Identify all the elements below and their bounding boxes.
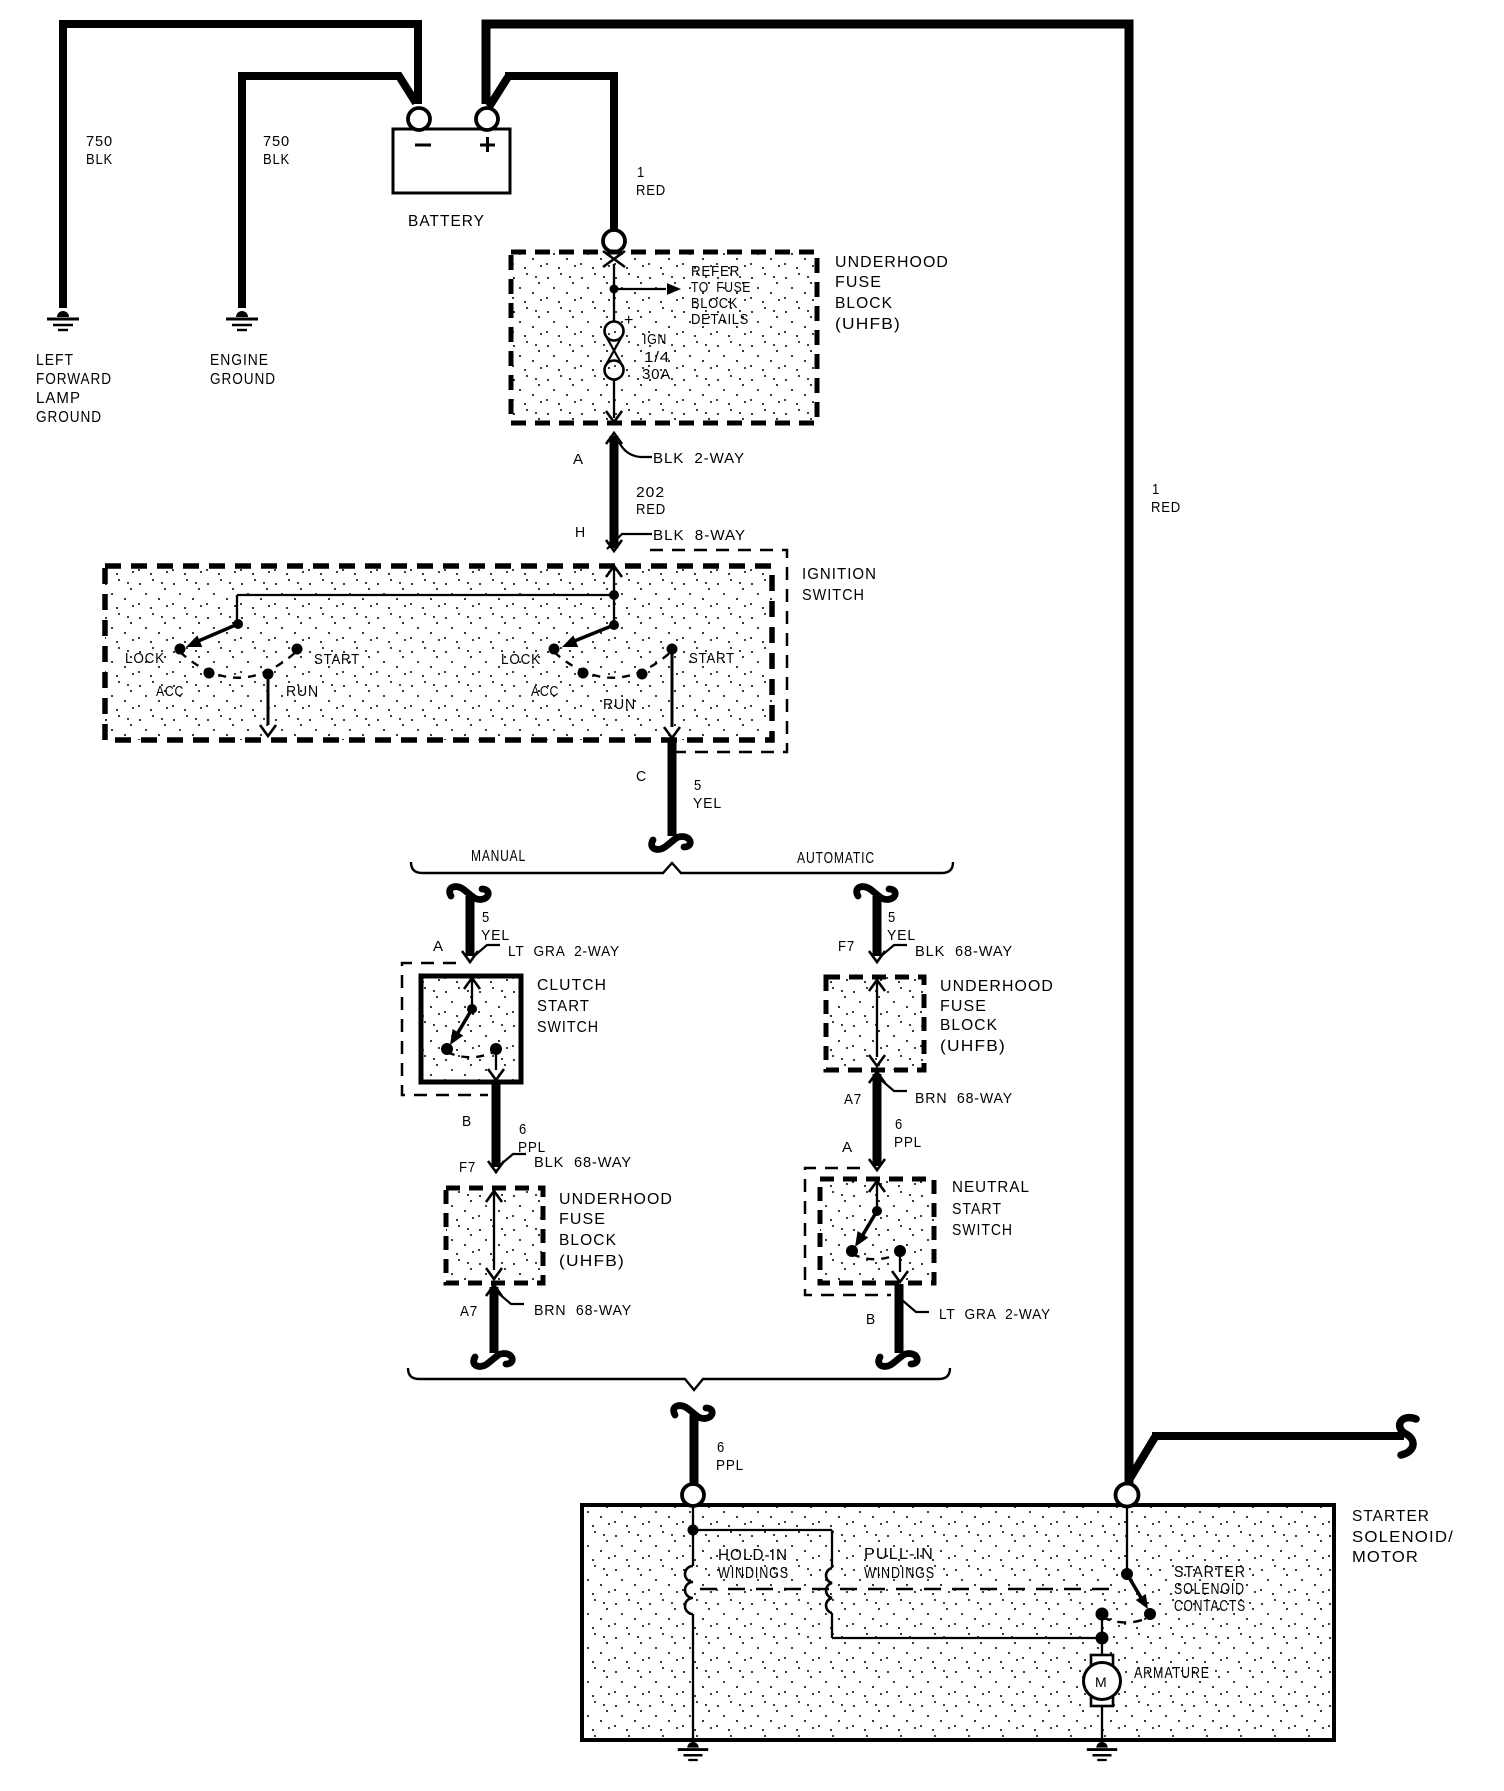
svg-text:5: 5 — [888, 909, 896, 926]
svg-text:NEUTRAL: NEUTRAL — [952, 1179, 1030, 1196]
svg-text:BRN 68-WAY: BRN 68-WAY — [915, 1090, 1013, 1107]
svg-text:GROUND: GROUND — [210, 371, 276, 388]
svg-text:MOTOR: MOTOR — [1352, 1549, 1419, 1566]
svg-text:SWITCH: SWITCH — [952, 1222, 1013, 1239]
left wafer output wire — [267, 674, 270, 725]
clutch start switch — [421, 976, 521, 1082]
svg-text:UNDERHOOD: UNDERHOOD — [940, 978, 1054, 995]
svg-text:FUSE: FUSE — [559, 1211, 606, 1228]
svg-text:BLK: BLK — [86, 151, 113, 168]
svg-text:A: A — [842, 1139, 853, 1156]
svg-text:RED: RED — [636, 182, 666, 199]
svg-text:SWITCH: SWITCH — [802, 587, 865, 604]
fuse IGN 1/4 30A — [613, 289, 615, 322]
ground: solenoid hold-in — [687, 1742, 698, 1748]
starter solenoid contacts — [1126, 1506, 1128, 1572]
svg-text:YEL: YEL — [887, 927, 916, 944]
svg-text:FUSE: FUSE — [835, 274, 882, 291]
svg-text:BLOCK: BLOCK — [940, 1017, 998, 1034]
contact RUN (right) — [637, 669, 648, 680]
svg-text:SOLENOID/: SOLENOID/ — [1352, 1529, 1454, 1546]
svg-text:F7: F7 — [459, 1159, 476, 1176]
svg-text:5: 5 — [694, 777, 702, 794]
contact RUN (left) — [263, 669, 274, 680]
contact to armature junction — [1101, 1614, 1103, 1638]
svg-text:ACC: ACC — [531, 683, 559, 700]
clutch switch contact (lower left) — [441, 1043, 453, 1055]
svg-text:(UHFB): (UHFB) — [559, 1253, 625, 1270]
svg-text:MANUAL: MANUAL — [471, 848, 526, 865]
terminal X at UHFB entry — [603, 251, 625, 267]
contact LOCK (right) — [549, 644, 560, 655]
svg-text:BRN 68-WAY: BRN 68-WAY — [534, 1302, 632, 1319]
svg-text:LT GRA 2-WAY: LT GRA 2-WAY — [508, 943, 620, 960]
svg-text:A: A — [433, 938, 444, 955]
contact START (right) — [667, 644, 678, 655]
brace: manual/automatic join — [408, 1368, 950, 1390]
neutral start switch — [820, 1179, 934, 1283]
svg-text:30A: 30A — [642, 367, 671, 383]
svg-text:FUSE: FUSE — [940, 998, 987, 1015]
svg-text:750: 750 — [263, 133, 290, 150]
svg-text:+: + — [624, 312, 634, 329]
wire (manual) to splice — [490, 1287, 499, 1353]
neutral switch output contact — [894, 1245, 906, 1257]
svg-text:FORWARD: FORWARD — [36, 371, 112, 388]
clutch switch movable contact — [467, 1004, 477, 1014]
connector ring (6 PPL into solenoid) — [682, 1484, 704, 1506]
svg-text:START: START — [952, 1201, 1002, 1218]
svg-text:RUN: RUN — [286, 683, 319, 700]
svg-text:6: 6 — [717, 1439, 725, 1456]
svg-text:F7: F7 — [838, 938, 855, 955]
svg-text:202: 202 — [636, 484, 665, 501]
underhood fuse block UHFB (manual) — [446, 1188, 543, 1283]
svg-text:RED: RED — [636, 501, 666, 518]
svg-text:C: C — [636, 768, 647, 785]
continuation squiggle (automatic end) — [879, 1354, 918, 1367]
junction node — [609, 590, 619, 600]
svg-text:1: 1 — [637, 164, 645, 181]
wire 5 YEL automatic branch — [873, 896, 882, 956]
contact ACC (left) — [204, 668, 215, 679]
svg-text:A7: A7 — [460, 1303, 478, 1320]
neutral switch movable contact — [872, 1206, 882, 1216]
right wafer feed — [613, 595, 615, 624]
svg-text:A7: A7 — [844, 1091, 862, 1108]
svg-text:750: 750 — [86, 133, 113, 150]
contact LOCK (left) — [175, 644, 186, 655]
svg-text:BLK: BLK — [263, 151, 290, 168]
svg-text:6: 6 — [895, 1116, 903, 1133]
svg-text:BLK 68-WAY: BLK 68-WAY — [534, 1154, 632, 1171]
svg-text:DETAILS: DETAILS — [691, 312, 749, 328]
continuation squiggle (automatic 5 YEL) — [857, 887, 896, 900]
wire 5 YEL from ignition switch — [668, 742, 677, 836]
svg-text:B: B — [462, 1113, 472, 1130]
svg-text:AUTOMATIC: AUTOMATIC — [797, 850, 875, 867]
node: fuse feed junction — [613, 264, 615, 288]
svg-text:RUN: RUN — [603, 696, 636, 713]
pull-in winding return — [831, 1613, 833, 1638]
underhood fuse block UHFB (automatic) — [826, 977, 924, 1070]
svg-text:TO FUSE: TO FUSE — [691, 280, 751, 296]
svg-text:M: M — [1095, 1674, 1107, 1690]
svg-text:YEL: YEL — [481, 927, 510, 944]
wire 6 PPL to starter solenoid — [690, 1415, 699, 1483]
ignition switch connector outline (8-way) — [650, 550, 787, 752]
armature return to ground — [1101, 1706, 1103, 1739]
wire to pull-in winding — [693, 1529, 832, 1531]
UHFB automatic internal path — [869, 980, 885, 991]
hold-in winding return to ground — [692, 1614, 694, 1739]
svg-text:IGNITION: IGNITION — [802, 566, 877, 583]
clutch switch detent arc — [447, 1051, 496, 1057]
svg-text:LEFT: LEFT — [36, 352, 74, 369]
svg-text:ACC: ACC — [156, 683, 184, 700]
ground: engine — [236, 311, 248, 317]
svg-text:SWITCH: SWITCH — [537, 1019, 599, 1036]
svg-text:H: H — [575, 524, 586, 541]
clutch switch feed arrow — [464, 978, 480, 989]
ignition switch — [105, 566, 772, 740]
svg-text:LT GRA 2-WAY: LT GRA 2-WAY — [939, 1306, 1051, 1323]
battery negative terminal — [408, 108, 430, 130]
svg-text:LAMP: LAMP — [36, 390, 81, 407]
continuation squiggle (manual 5 YEL) — [450, 887, 489, 900]
starter solenoid/motor box — [582, 1505, 1334, 1740]
svg-text:UNDERHOOD: UNDERHOOD — [835, 254, 949, 271]
svg-text:BLK 68-WAY: BLK 68-WAY — [915, 943, 1013, 960]
right wafer wiper arrow to LOCK — [572, 625, 614, 642]
junction: windings split — [688, 1525, 699, 1536]
svg-text:1/4: 1/4 — [644, 350, 670, 366]
wire 202 RED — [610, 436, 619, 548]
svg-text:IGN: IGN — [643, 332, 667, 348]
svg-text:(UHFB): (UHFB) — [940, 1038, 1006, 1055]
svg-text:BATTERY: BATTERY — [408, 213, 485, 230]
wire: solenoid branch to right (continuation) — [1129, 1437, 1155, 1480]
pull-in winding L2 — [826, 1568, 832, 1613]
underhood fuse block UHFB (top) — [511, 252, 817, 423]
wire 1 RED battery positive to underhood fuse block — [489, 77, 508, 107]
contacts detent arc — [1102, 1617, 1150, 1623]
svg-text:BLOCK: BLOCK — [691, 296, 738, 312]
ground: left forward lamp — [57, 311, 69, 317]
svg-text:BLK 2-WAY: BLK 2-WAY — [653, 450, 745, 467]
neutral switch feed arrow — [869, 1181, 885, 1192]
continuation squiggle (6 PPL) — [674, 1406, 713, 1419]
right wafer detent arc — [554, 651, 672, 678]
svg-text:UNDERHOOD: UNDERHOOD — [559, 1191, 673, 1208]
svg-text:RED: RED — [1151, 499, 1181, 516]
svg-text:PULL-IN: PULL-IN — [864, 1546, 934, 1563]
clutch switch output contact — [490, 1043, 502, 1055]
battery B1 — [393, 129, 510, 193]
continuation squiggle (manual end) — [474, 1354, 513, 1367]
svg-text:6: 6 — [519, 1121, 527, 1138]
junction left wafer — [233, 619, 243, 629]
arrow: refer to fuse block details — [614, 288, 666, 290]
svg-text:BLOCK: BLOCK — [835, 295, 893, 312]
connector A BLK 2-WAY — [606, 433, 622, 444]
right wafer output wire — [671, 649, 674, 727]
contact ACC (right) — [578, 668, 589, 679]
wire LT GRA (automatic) to splice — [895, 1284, 904, 1353]
svg-text:GROUND: GROUND — [36, 409, 102, 426]
svg-text:LOCK: LOCK — [125, 650, 165, 667]
svg-text:ARMATURE: ARMATURE — [1134, 1665, 1210, 1682]
UHFB manual internal path — [486, 1191, 502, 1202]
svg-text:PPL: PPL — [894, 1134, 922, 1151]
wire to left wafer — [237, 594, 614, 596]
svg-text:SOLENOID: SOLENOID — [1174, 1581, 1245, 1598]
svg-text:B: B — [866, 1311, 876, 1328]
solenoid plunger link (dashed) — [700, 1588, 1118, 1591]
battery positive terminal — [476, 108, 498, 130]
neutral switch contact (lower left) — [846, 1245, 858, 1257]
svg-text:5: 5 — [482, 909, 490, 926]
svg-text:STARTER: STARTER — [1352, 1508, 1430, 1525]
wire 750 BLK battery negative to engine ground — [242, 76, 416, 308]
continuation squiggle (right) — [1400, 1418, 1416, 1455]
neutral start switch connector outline — [805, 1168, 891, 1295]
neutral switch detent arc — [852, 1253, 900, 1259]
svg-text:BLOCK: BLOCK — [559, 1232, 617, 1249]
svg-text:YEL: YEL — [693, 795, 722, 812]
svg-text:WINDINGS: WINDINGS — [718, 1565, 789, 1582]
contact START (left) — [292, 644, 303, 655]
svg-text:BLK 8-WAY: BLK 8-WAY — [653, 527, 746, 544]
fuse output wire to box edge — [613, 379, 615, 418]
hold-in winding feed — [692, 1506, 694, 1566]
connector H BLK 8-WAY — [606, 540, 622, 551]
ground: armature — [1096, 1742, 1107, 1748]
wire 6 PPL (automatic) — [873, 1074, 882, 1166]
svg-text:START: START — [689, 650, 735, 667]
continuation squiggle (5 YEL) — [652, 837, 691, 850]
svg-text:START: START — [537, 998, 590, 1015]
left wafer detent arc — [180, 651, 297, 678]
wire 1 RED battery positive to starter solenoid (right side) — [486, 24, 1129, 1487]
svg-text:ENGINE: ENGINE — [210, 352, 269, 369]
ignition feed entry arrow — [606, 566, 622, 577]
svg-text:HOLD-IN: HOLD-IN — [718, 1547, 788, 1564]
svg-text:A: A — [573, 451, 584, 468]
connector ring (1 RED into solenoid) — [1116, 1484, 1139, 1507]
svg-text:1: 1 — [1152, 481, 1160, 498]
wire 750 BLK battery negative to left forward lamp ground — [63, 24, 418, 308]
connector ring at UHFB input — [603, 230, 625, 252]
svg-text:STARTER: STARTER — [1174, 1564, 1246, 1581]
svg-text:WINDINGS: WINDINGS — [864, 1565, 935, 1582]
clutch start switch connector outline — [402, 963, 488, 1095]
battery minus sign — [415, 144, 431, 147]
hold-in winding L1 — [685, 1566, 693, 1614]
svg-text:CLUTCH: CLUTCH — [537, 977, 607, 994]
left wafer wiper arrow to LOCK — [196, 624, 238, 642]
svg-text:(UHFB): (UHFB) — [835, 316, 901, 333]
wire 5 YEL manual branch — [466, 896, 475, 956]
svg-text:PPL: PPL — [716, 1457, 744, 1474]
wire 6 PPL (manual) — [492, 1082, 501, 1167]
svg-text:LOCK: LOCK — [501, 651, 541, 668]
svg-text:REFER: REFER — [691, 264, 740, 280]
svg-text:START: START — [314, 651, 360, 668]
armature M1 — [1091, 1655, 1113, 1706]
svg-text:CONTACTS: CONTACTS — [1174, 1598, 1246, 1615]
brace: manual/automatic split — [411, 862, 953, 873]
battery plus sign — [480, 144, 495, 147]
